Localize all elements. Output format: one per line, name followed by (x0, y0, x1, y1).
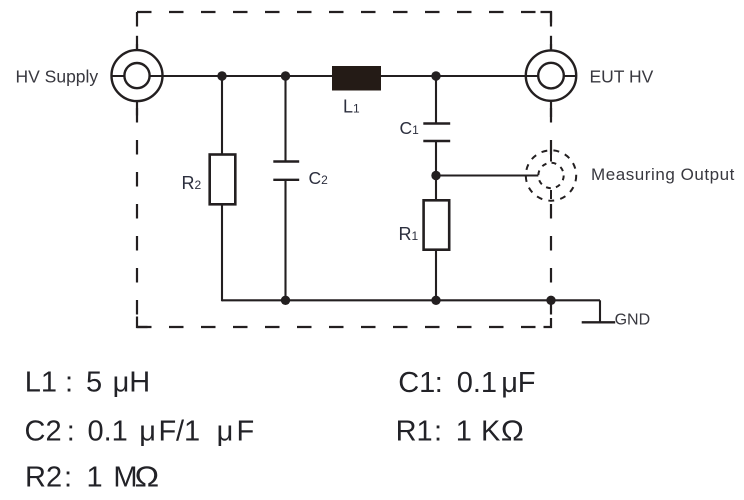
connector J1 bottom stub (136, 101, 138, 116)
connector J1 inner circle (124, 63, 149, 88)
connector J2 EUT HV outer circle (526, 50, 576, 100)
wire bottom bus (222, 299, 600, 301)
svg-text:EUT HV: EUT HV (590, 67, 654, 87)
connector J1 top stub (136, 36, 138, 51)
junction node top-C2 (281, 71, 290, 80)
svg-text:R1:1KΩ: R1:1KΩ (396, 415, 524, 447)
connector J2 bottom stub (550, 101, 552, 117)
enclosure dashed border right (550, 12, 552, 327)
capacitor C1 top plate (423, 122, 450, 124)
connector J2 top stub (550, 36, 552, 51)
enclosure border corner top-right (541, 12, 552, 23)
border dash crossing measuring annulus bottom (550, 190, 552, 199)
svg-text:L1:5μH: L1:5μH (25, 367, 151, 399)
svg-text:HV Supply: HV Supply (16, 67, 99, 87)
enclosure dashed border left (136, 12, 138, 327)
enclosure border corner bottom-left (137, 317, 148, 328)
resistor R1 body (424, 200, 450, 249)
capacitor C2 bottom plate (273, 179, 299, 181)
capacitor C2 top plate (273, 160, 299, 162)
svg-text:R1: R1 (399, 224, 419, 244)
svg-text:C2:0.1μF/1μF: C2:0.1μF/1μF (25, 415, 255, 447)
svg-text:R2:1MΩ: R2:1MΩ (25, 462, 159, 494)
measuring output connector outer dashed circle (526, 150, 576, 200)
svg-text:Measuring Output: Measuring Output (591, 165, 735, 184)
junction node top-R2 (217, 71, 226, 80)
wire C1 to node A (435, 141, 437, 200)
enclosure dashed border top (137, 11, 551, 13)
junction node A C1/R1/tap (431, 171, 440, 180)
svg-text:R2: R2 (182, 173, 202, 193)
enclosure border corner bottom-right (544, 318, 552, 327)
svg-text:L1: L1 (343, 96, 360, 116)
junction node bus-R1 (431, 296, 440, 305)
junction node bus-C2 (281, 296, 290, 305)
connector J1 HV Supply outer circle (112, 50, 163, 101)
capacitor C1 bottom plate (423, 140, 450, 142)
enclosure dashed border bottom (137, 326, 551, 328)
svg-text:GND: GND (615, 311, 651, 328)
svg-text:C1: C1 (400, 118, 420, 138)
wire R1 to bottom bus (435, 250, 437, 301)
wire R2 to bottom bus (221, 204, 223, 301)
border dash crossing measuring annulus top (550, 153, 552, 162)
wire measuring output tap (436, 174, 540, 176)
wire top rail (112, 75, 577, 77)
wire C1 branch vertical (435, 76, 437, 124)
wire C2 to bottom bus (284, 180, 286, 300)
measuring output connector inner dashed circle (538, 163, 563, 188)
ground bar (582, 321, 616, 323)
svg-text:C2: C2 (309, 168, 329, 188)
connector J2 inner circle (538, 63, 564, 89)
wire C2 branch vertical top (284, 76, 286, 162)
junction node top-C1 (431, 71, 440, 80)
wire R2 branch vertical (221, 76, 223, 155)
wire GND drop (599, 300, 601, 322)
junction node bus-GND (546, 296, 555, 305)
inductor L1 body (332, 66, 381, 91)
resistor R2 body (210, 155, 236, 205)
svg-text:C1:0.1μF: C1:0.1μF (398, 367, 535, 399)
